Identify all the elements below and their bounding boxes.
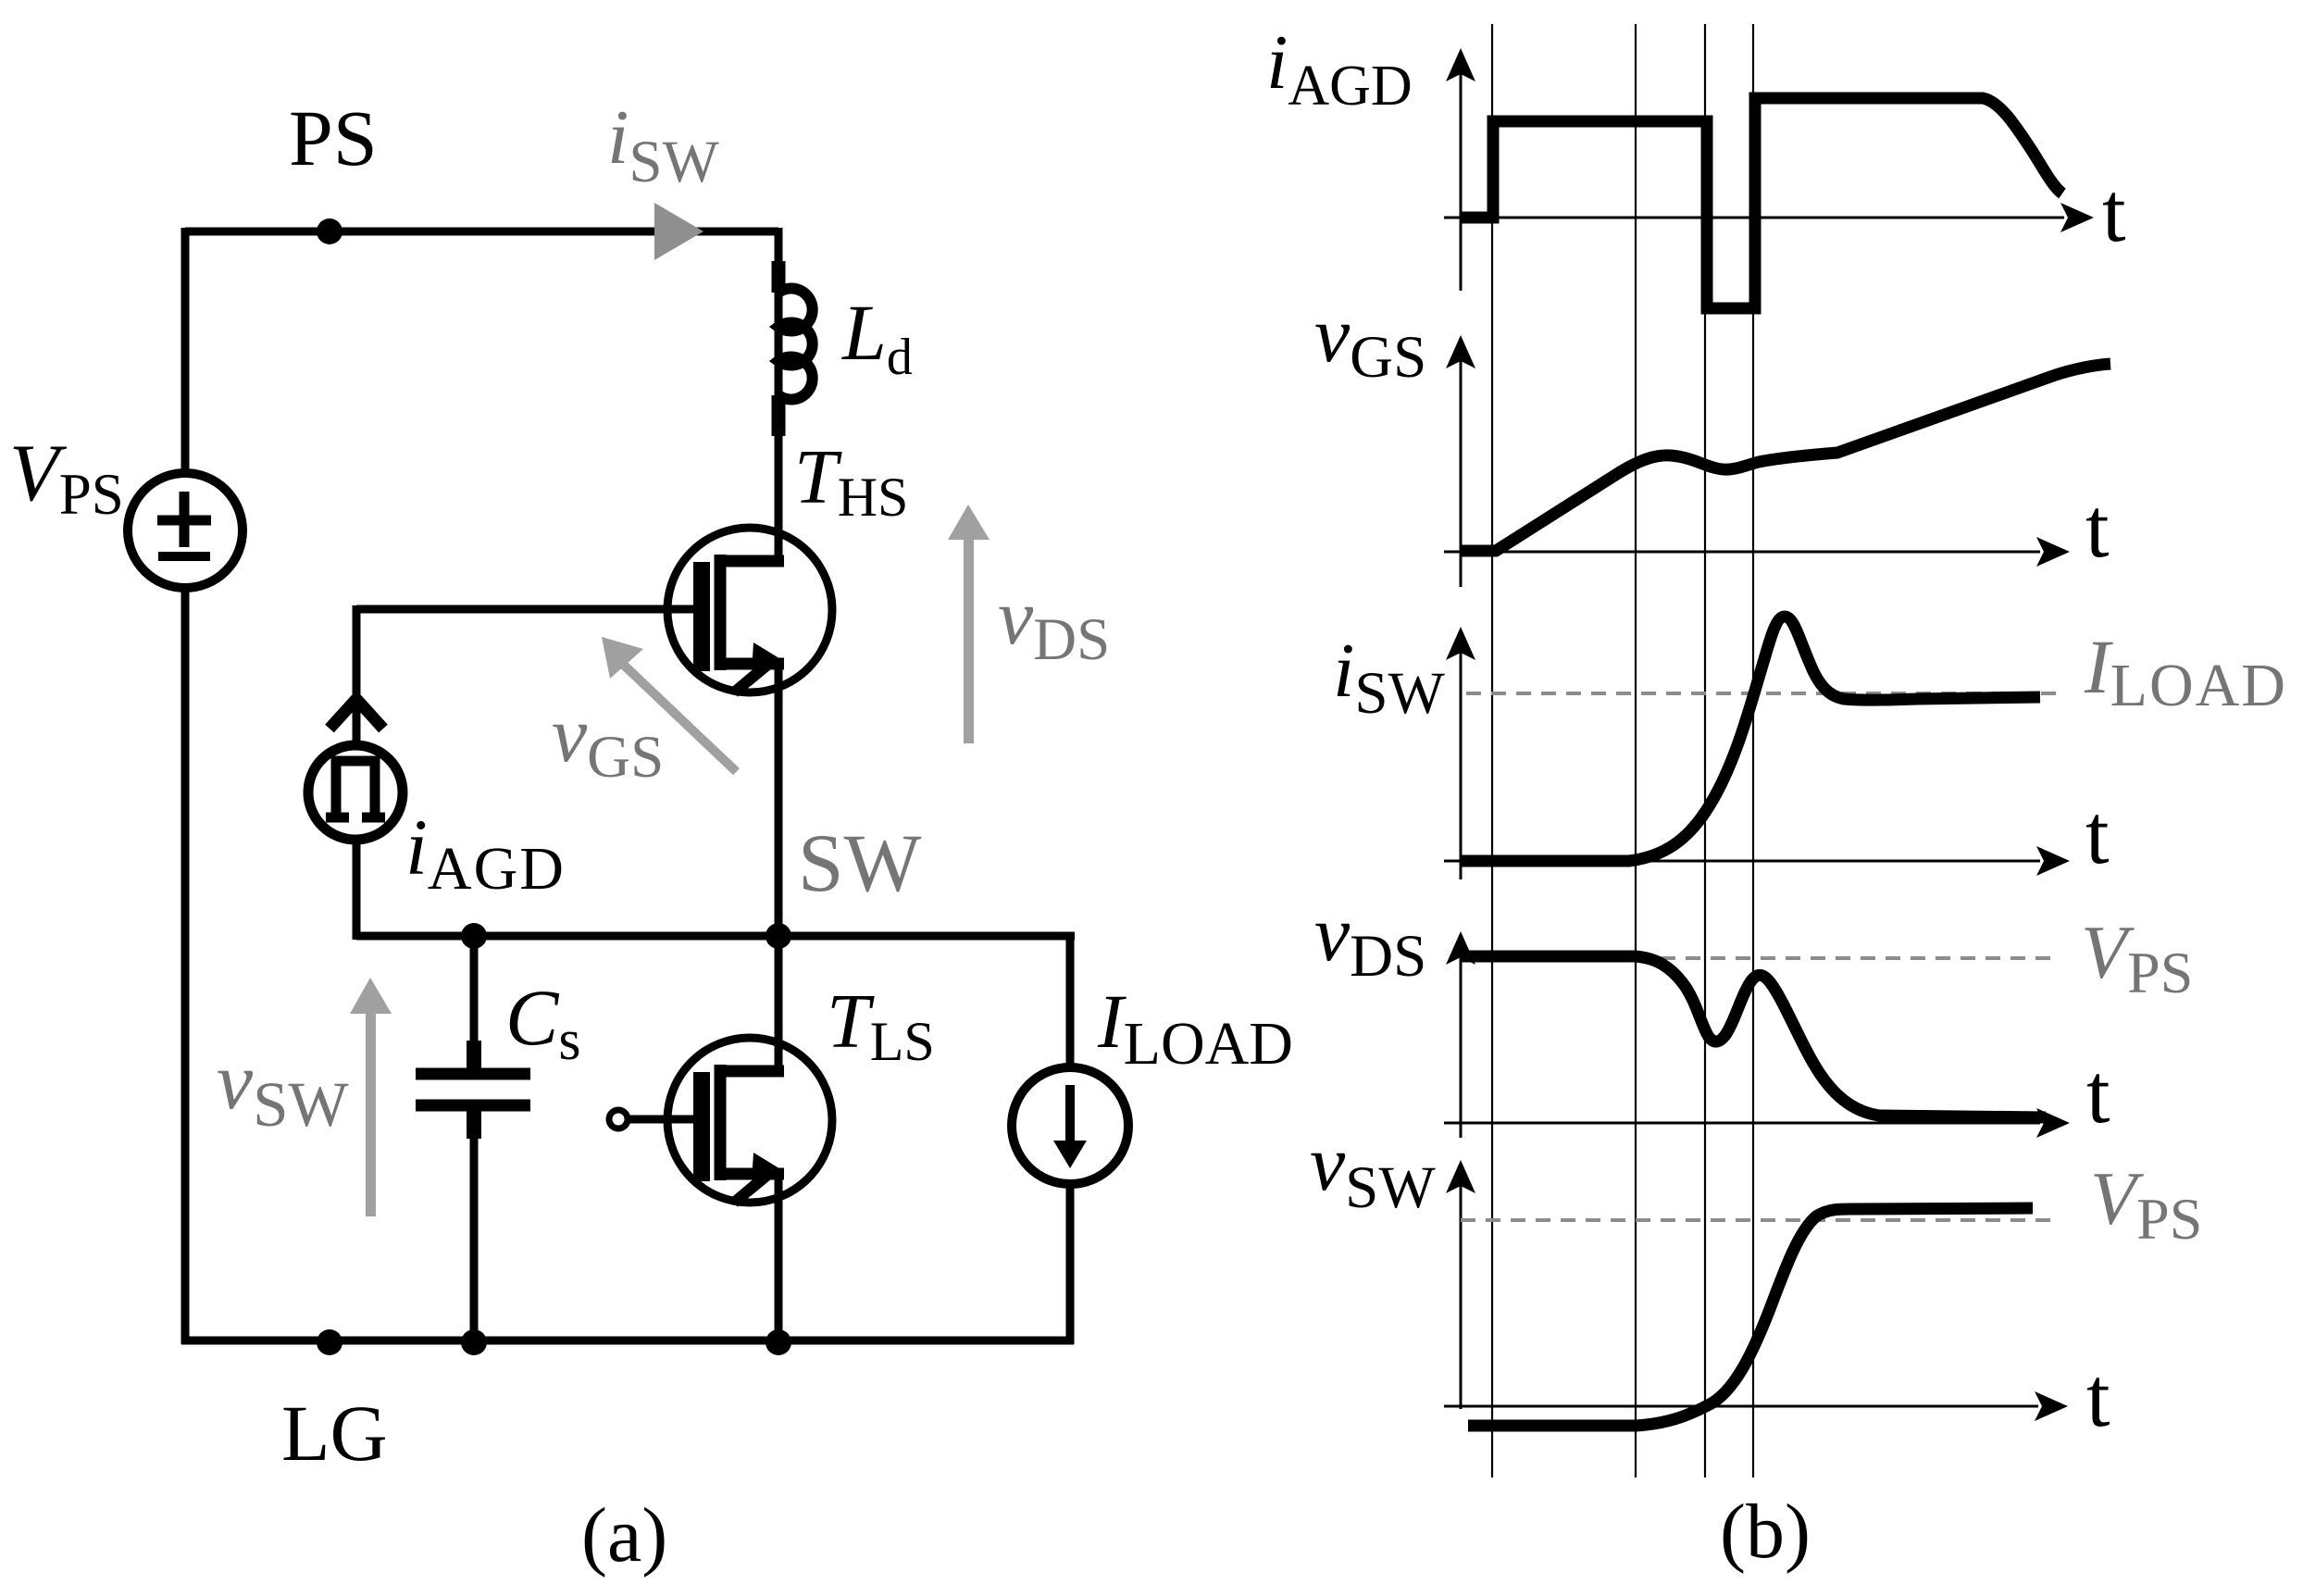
T_LS circle bbox=[667, 1038, 832, 1203]
I_LOAD circle bbox=[1012, 1067, 1128, 1184]
waveform v_SW bbox=[1468, 1208, 2033, 1426]
axis y4 bbox=[1460, 957, 1463, 1138]
dashed level I_LOAD bbox=[1466, 692, 2066, 695]
svg-text:(b): (b) bbox=[1720, 1489, 1811, 1575]
VPS minus sign bbox=[158, 552, 210, 561]
axis y1 bbox=[1460, 74, 1463, 291]
wire: SW horizontal rail bbox=[356, 932, 1075, 941]
T_LS gate bar bbox=[693, 1072, 710, 1181]
T_LS source arrow bbox=[734, 1183, 757, 1203]
wire: T_LS source down to bottom rail bbox=[775, 1174, 783, 1344]
grid line 2 bbox=[1635, 24, 1637, 1478]
svg-text:SW: SW bbox=[798, 818, 922, 909]
T_HS source arrow bbox=[734, 673, 757, 692]
svg-text:PS: PS bbox=[289, 94, 378, 182]
axis t3 bbox=[1444, 860, 2040, 863]
node T_LS source bottom (dot) bbox=[766, 1329, 791, 1355]
Cs top lead bbox=[470, 936, 479, 1042]
svg-text:t: t bbox=[2085, 480, 2110, 575]
dashed level V_PS (vSW) bbox=[1461, 1218, 2056, 1222]
axis t5 bbox=[1444, 1405, 2038, 1408]
Cs bottom lead bbox=[467, 1110, 481, 1139]
i_AGD pulse symbol bbox=[326, 761, 385, 822]
current arrow i_SW (gray triangle) bbox=[654, 203, 703, 260]
T_LS channel bar bbox=[715, 1065, 727, 1180]
T_HS channel bar bbox=[715, 555, 727, 670]
axis y3 bbox=[1460, 653, 1463, 879]
I_LOAD right branch wire lower bbox=[1066, 1187, 1075, 1344]
svg-text:t: t bbox=[2102, 165, 2126, 259]
voltage arrow v_SW (gray) bbox=[350, 978, 392, 1216]
svg-text:t: t bbox=[2085, 787, 2110, 881]
svg-text:t: t bbox=[2086, 1046, 2110, 1141]
dashed level V_PS (vDS) bbox=[1461, 956, 2056, 960]
T_HS circle bbox=[667, 528, 832, 692]
node at Cs top (dot) bbox=[461, 923, 487, 949]
T_HS source stub bbox=[720, 658, 784, 670]
T_HS drain stub bbox=[715, 555, 784, 567]
svg-text:LG: LG bbox=[281, 1389, 388, 1478]
node LG (dot) bbox=[317, 1329, 342, 1355]
plot 3: i_SW vs t bbox=[1333, 617, 2287, 881]
current source I_LOAD bbox=[1012, 936, 1128, 1344]
VPS plus sign bbox=[157, 516, 211, 526]
I_LOAD right branch wire upper bbox=[1066, 936, 1075, 1065]
wire: right vertical drain branch (top) bbox=[775, 228, 783, 563]
axis t1 bbox=[1444, 217, 2064, 219]
transistor T_LS bbox=[609, 1038, 832, 1203]
inductor Ld bbox=[778, 261, 813, 436]
plot 1: i_AGD vs t bbox=[1266, 19, 2126, 308]
current source i_AGD bbox=[308, 605, 403, 940]
voltage source VPS bbox=[128, 473, 243, 588]
wire: left vertical from VPS to bottom rail bbox=[181, 592, 190, 1344]
Cs top plate bbox=[416, 1068, 530, 1080]
i_AGD wire down to SW rail bbox=[353, 843, 361, 940]
wire: T_LS drain up to SW bbox=[775, 936, 783, 1071]
waveform v_DS bbox=[1461, 956, 2046, 1117]
capacitor Cs bbox=[416, 936, 530, 1344]
T_HS gate bar bbox=[693, 562, 710, 671]
node Cs bottom (dot) bbox=[461, 1329, 487, 1355]
T_LS drain stub bbox=[715, 1066, 784, 1078]
wire: T_HS source down to SW node bbox=[775, 664, 783, 936]
grid line 3 bbox=[1704, 24, 1706, 1478]
I_LOAD internal arrow bbox=[1065, 1085, 1075, 1148]
axis y5 bbox=[1460, 1186, 1463, 1409]
wire: top horizontal PS rail bbox=[185, 228, 778, 236]
axis t2 bbox=[1444, 551, 2040, 554]
i_AGD wire up to gate lead bbox=[353, 605, 361, 742]
wire: gate lead of T_HS bbox=[356, 605, 696, 614]
i_AGD arrow chevron on wire bbox=[330, 699, 356, 729]
svg-text:(a): (a) bbox=[581, 1492, 667, 1578]
plot 2: v_GS vs t bbox=[1314, 290, 2110, 587]
axis y2 bbox=[1460, 361, 1463, 587]
axis t4 bbox=[1444, 1122, 2040, 1125]
wire: left vertical from top rail to VPS bbox=[181, 228, 190, 469]
waveform v_GS bbox=[1461, 364, 2110, 551]
svg-text:t: t bbox=[2086, 1350, 2110, 1444]
grid line 1 bbox=[1491, 24, 1493, 1478]
wire: bottom LG rail bbox=[181, 1337, 1074, 1345]
T_LS gate stub bbox=[628, 1116, 696, 1124]
waveform i_SW bbox=[1461, 617, 2040, 861]
T_LS gate terminal circle bbox=[609, 1110, 628, 1128]
node PS (dot) bbox=[317, 218, 342, 244]
node SW (dot) bbox=[766, 923, 791, 949]
T_LS source stub bbox=[720, 1168, 784, 1180]
plot 4: v_DS vs t bbox=[1314, 889, 2193, 1141]
transistor T_HS bbox=[667, 528, 832, 692]
Cs bottom plate bbox=[416, 1100, 530, 1112]
waveform i_AGD bbox=[1461, 98, 2062, 308]
i_AGD circle bbox=[308, 745, 403, 840]
voltage arrow v_GS (gray diagonal) bbox=[602, 637, 740, 775]
plot 5: v_SW vs t bbox=[1310, 1118, 2202, 1444]
voltage arrow v_DS (gray) bbox=[948, 505, 990, 743]
grid line 4 bbox=[1752, 24, 1754, 1478]
